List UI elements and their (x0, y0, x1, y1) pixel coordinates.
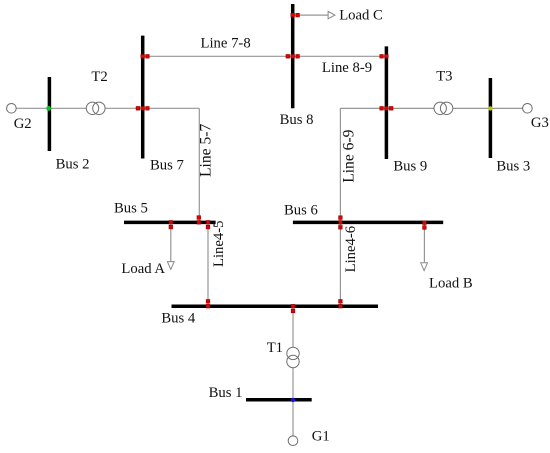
svg-text:Line 8-9: Line 8-9 (322, 60, 372, 76)
svg-text:T2: T2 (91, 69, 107, 85)
svg-text:Line4-5: Line4-5 (211, 221, 227, 268)
svg-text:Bus 4: Bus 4 (161, 311, 196, 327)
svg-text:Load B: Load B (429, 275, 473, 291)
svg-text:Line4-6: Line4-6 (343, 226, 359, 273)
svg-text:G1: G1 (312, 428, 330, 444)
svg-text:G2: G2 (14, 116, 32, 132)
svg-text:Load A: Load A (121, 261, 165, 277)
svg-text:Bus 2: Bus 2 (56, 157, 90, 173)
svg-text:Line 6-9: Line 6-9 (340, 129, 357, 182)
svg-text:T1: T1 (267, 340, 283, 356)
svg-text:T3: T3 (436, 68, 452, 84)
svg-text:Bus 6: Bus 6 (284, 202, 318, 218)
svg-text:G3: G3 (531, 115, 549, 131)
svg-text:Load C: Load C (339, 7, 383, 23)
svg-text:Bus 3: Bus 3 (496, 158, 530, 174)
svg-text:Bus 8: Bus 8 (280, 112, 314, 128)
svg-text:Bus 9: Bus 9 (393, 158, 427, 174)
svg-text:Line 5-7: Line 5-7 (198, 124, 215, 177)
svg-text:Bus 1: Bus 1 (209, 385, 243, 401)
svg-text:Bus 5: Bus 5 (114, 201, 148, 217)
svg-text:Bus 7: Bus 7 (150, 157, 184, 173)
svg-text:Line 7-8: Line 7-8 (201, 36, 251, 52)
